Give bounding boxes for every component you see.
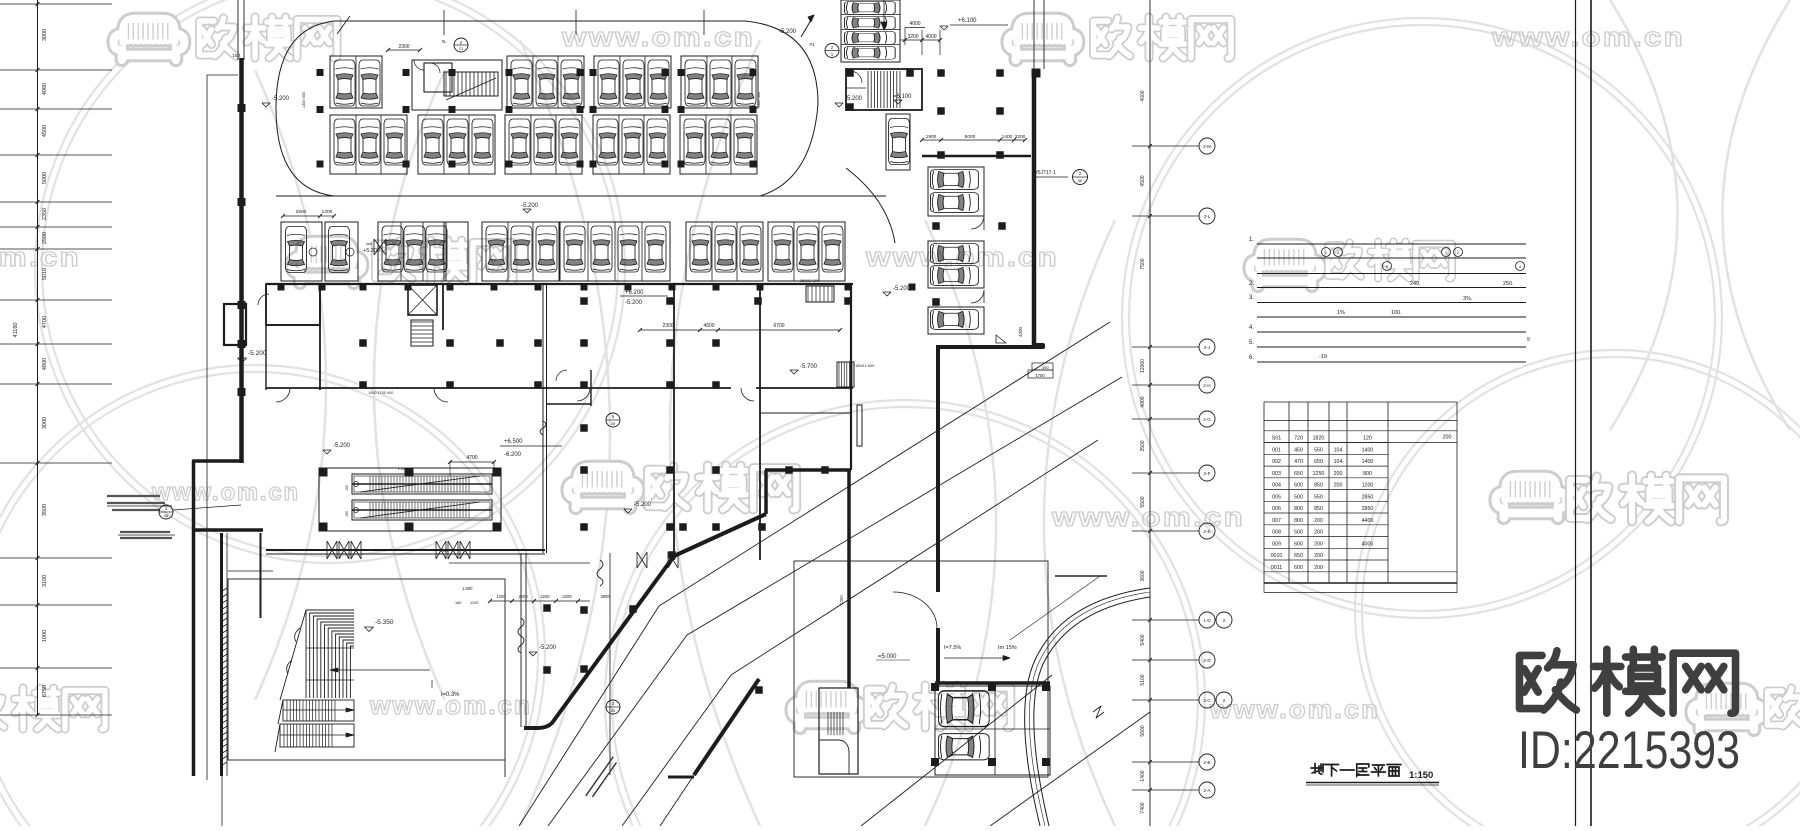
- svg-text:2300: 2300: [662, 323, 673, 329]
- watermark row1 sofa+logo b: [1008, 19, 1079, 60]
- svg-text:2500: 2500: [42, 232, 48, 244]
- svg-text:Im 15%: Im 15%: [998, 645, 1017, 651]
- svg-text:3100: 3100: [42, 575, 48, 587]
- svg-text:180X1.500: 180X1.500: [855, 363, 875, 368]
- svg-text:5010: 5010: [42, 268, 48, 280]
- svg-text:800: 800: [1294, 506, 1303, 512]
- svg-text:1400 1700 400: 1400 1700 400: [368, 391, 393, 395]
- escalator unit 1: [352, 474, 492, 494]
- big watermark logo: [1519, 651, 1576, 710]
- row1 dim 2300: [388, 49, 420, 51]
- property line left: [206, 75, 208, 780]
- svg-text:www.om.cn: www.om.cn: [1209, 694, 1380, 724]
- svg-text:5400: 5400: [1140, 634, 1146, 645]
- svg-text:200: 200: [1443, 435, 1452, 441]
- parking loop columns: [317, 69, 324, 76]
- lobby dims top: [449, 562, 590, 564]
- svg-text:3200: 3200: [1015, 134, 1026, 140]
- svg-text:25: 25: [611, 708, 616, 713]
- row1 stair block: [412, 60, 502, 110]
- notes inline circles: [1322, 248, 1331, 257]
- right wing columns: [932, 222, 940, 230]
- mall stair small top: [806, 286, 834, 302]
- svg-text:3600: 3600: [1140, 570, 1146, 581]
- svg-text:46: 46: [1078, 178, 1083, 183]
- svg-text:S01: S01: [1272, 436, 1281, 442]
- svg-text:www.om.cn: www.om.cn: [1491, 22, 1685, 52]
- svg-text:0010: 0010: [1271, 553, 1283, 559]
- svg-text:470: 470: [1294, 459, 1303, 465]
- row3 group4: [560, 222, 670, 281]
- mall door arcs bottom: [276, 388, 290, 402]
- bottom right stalls: [935, 686, 1050, 775]
- left grid line vertical: [37, 0, 39, 715]
- svg-text:100.: 100.: [1391, 310, 1402, 316]
- mall room walls left: [266, 284, 320, 325]
- construction rect: [794, 561, 1048, 777]
- svg-text:1400: 1400: [1002, 134, 1013, 140]
- svg-text:2200: 2200: [562, 594, 572, 599]
- watermark row4 sofa+logo b: [1692, 689, 1763, 730]
- left wall jog thick: [194, 461, 244, 776]
- svg-text:2-C: 2-C: [1203, 698, 1211, 703]
- stair right mid: [837, 362, 854, 387]
- mall wall bottom right: [765, 468, 851, 472]
- svg-text:2350: 2350: [42, 208, 48, 220]
- svg-text:www.om.cn: www.om.cn: [151, 479, 300, 506]
- svg-text:4000: 4000: [909, 21, 920, 27]
- svg-text:200: 200: [1334, 483, 1343, 489]
- grand stair flight2: [283, 700, 354, 721]
- svg-text:2-L: 2-L: [1204, 214, 1211, 219]
- mall columns: [359, 339, 367, 347]
- svg-text:-5.700: -5.700: [800, 364, 818, 370]
- svg-text:120: 120: [1363, 436, 1372, 442]
- ramp circle left: [454, 38, 468, 52]
- svg-text:1700: 1700: [1035, 373, 1045, 378]
- svg-text:3500: 3500: [1140, 440, 1146, 451]
- svg-text:3000: 3000: [42, 29, 48, 41]
- svg-text:002: 002: [1272, 459, 1281, 465]
- left annotation text: [107, 495, 160, 497]
- svg-text:21: 21: [459, 46, 464, 51]
- svg-text:005: 005: [1272, 494, 1281, 500]
- svg-text:850: 850: [1314, 506, 1323, 512]
- car stack stalls: [841, 0, 900, 62]
- left boundary wall top thin: [237, 0, 239, 60]
- svg-text:2-D: 2-D: [1203, 658, 1211, 663]
- road thin lines lower right: [861, 675, 1052, 826]
- svg-text:2300: 2300: [398, 44, 409, 50]
- svg-text:1200: 1200: [322, 209, 333, 215]
- svg-text:-5.200: -5.200: [539, 645, 557, 651]
- road thin line lower cont: [660, 775, 694, 826]
- svg-text:2.: 2.: [1249, 281, 1254, 287]
- right wing stall2: [928, 241, 984, 288]
- svg-text:4500: 4500: [703, 323, 714, 329]
- svg-text:#L: #L: [442, 39, 447, 44]
- watermark row2 sofa+logo b: [1250, 245, 1321, 286]
- svg-text:=5.000: =5.000: [878, 654, 897, 660]
- lower-left gray wall: [260, 533, 262, 618]
- mall dims: [640, 329, 840, 331]
- leader circle mid2: [606, 700, 620, 714]
- svg-text:6750: 6750: [42, 685, 48, 697]
- grand stair break edge: [275, 610, 306, 752]
- svg-text:5600: 5600: [1140, 725, 1146, 736]
- svg-text:-5.200: -5.200: [248, 350, 267, 357]
- svg-text:7400: 7400: [1140, 802, 1146, 813]
- svg-text:001: 001: [1272, 447, 1281, 453]
- svg-text:1300 500: 1300 500: [302, 92, 306, 108]
- svg-text:150: 150: [345, 485, 349, 491]
- lobby revolving doors: [327, 541, 337, 559]
- svg-text:-5.200: -5.200: [779, 29, 797, 35]
- watermark row4 logo partial: [0, 689, 4, 727]
- svg-text:3800: 3800: [600, 594, 610, 599]
- svg-text:1300 500: 1300 500: [757, 92, 761, 108]
- row3 group5: [686, 222, 763, 281]
- main left wall thick: [239, 58, 244, 463]
- left grid horizontal lines: [0, 3, 112, 5]
- svg-text:650: 650: [1314, 459, 1323, 465]
- svg-text:5500: 5500: [1140, 496, 1146, 507]
- svg-text:1200: 1200: [839, 595, 844, 605]
- svg-text:6.: 6.: [1249, 355, 1254, 361]
- svg-text:1-D: 1-D: [1203, 618, 1211, 623]
- svg-text:4060: 4060: [42, 83, 48, 95]
- stairwell top right: [846, 69, 922, 110]
- small stair mid: [411, 320, 433, 346]
- stair room bottom: [819, 688, 858, 774]
- notes numbered lines: [1257, 243, 1526, 245]
- svg-text:0011: 0011: [1271, 565, 1282, 571]
- svg-text:1900: 1900: [926, 134, 937, 140]
- svg-text:+6.100: +6.100: [958, 18, 977, 24]
- svg-text:4700: 4700: [466, 455, 477, 461]
- lobby door pair right: [637, 552, 647, 568]
- door window schedule table: [1264, 402, 1457, 583]
- svg-text:4000: 4000: [925, 34, 936, 40]
- parking row1 group4: [681, 56, 758, 108]
- svg-text:250X2 300: 250X2 300: [800, 278, 820, 283]
- wall A vertical: [847, 470, 851, 688]
- svg-text:-5.350: -5.350: [375, 619, 394, 626]
- stair mid landing lines: [306, 648, 354, 680]
- loop center ticks: [443, 10, 445, 35]
- svg-text:600: 600: [1294, 541, 1303, 547]
- svg-text:2-J: 2-J: [1204, 345, 1210, 350]
- svg-text:5100: 5100: [1140, 674, 1146, 685]
- svg-text:25: 25: [611, 421, 616, 426]
- svg-text:2-G: 2-G: [1203, 417, 1211, 422]
- lobby top wall: [266, 549, 545, 551]
- left lower wall thick: [195, 528, 263, 532]
- svg-text:6700: 6700: [773, 323, 784, 329]
- svg-text:800: 800: [1294, 518, 1303, 524]
- svg-text:-5.200: -5.200: [272, 96, 290, 102]
- svg-text:ID:2215393: ID:2215393: [1518, 721, 1740, 780]
- svg-text:2850: 2850: [1362, 506, 1374, 512]
- curve into right wing: [846, 168, 895, 243]
- curved road bottom right: [1025, 588, 1150, 826]
- svg-text:#5J?17-1: #5J?17-1: [1035, 170, 1056, 176]
- svg-text:3.: 3.: [1249, 295, 1254, 301]
- svg-text:1250: 1250: [1313, 471, 1325, 477]
- drive loop boundary: [334, 20, 745, 22]
- ramp circle symbol: [825, 44, 839, 58]
- watermark row3 sofa+logo b: [1496, 477, 1567, 518]
- row3 group6: [768, 222, 845, 281]
- svg-text:600: 600: [1294, 565, 1303, 571]
- wing wall lower with door: [893, 592, 937, 628]
- svg-text:500: 500: [1294, 494, 1303, 500]
- parking row2 groups: [330, 115, 407, 174]
- svg-text:+6.200: +6.200: [625, 290, 644, 296]
- svg-text:2200: 2200: [518, 594, 528, 599]
- svg-text:www.om.cn: www.om.cn: [0, 242, 81, 272]
- lobby right wall double: [520, 553, 522, 727]
- svg-text:5.: 5.: [1249, 340, 1254, 346]
- svg-text:www.om.cn: www.om.cn: [561, 22, 755, 52]
- break squiggles: [518, 618, 524, 653]
- svg-text:-5.200: -5.200: [333, 443, 351, 449]
- svg-text:720: 720: [1294, 436, 1303, 442]
- left wall columns: [238, 104, 246, 112]
- parking row1 group1: [330, 56, 382, 108]
- svg-text:I=7.5%: I=7.5%: [944, 645, 961, 651]
- svg-text:006: 006: [1272, 506, 1281, 512]
- svg-text:+6.500: +6.500: [504, 439, 523, 445]
- svg-text:1400: 1400: [1362, 447, 1374, 453]
- svg-text:008: 008: [1272, 530, 1281, 536]
- svg-text:200: 200: [1334, 471, 1343, 477]
- escalator unit 2: [352, 500, 492, 520]
- svg-text:1200: 1200: [496, 594, 506, 599]
- svg-text:41160: 41160: [13, 323, 19, 338]
- bottom area left boundary: [609, 553, 611, 775]
- svg-text:www.om.cn: www.om.cn: [1051, 502, 1245, 532]
- lobby boundary: [228, 579, 505, 760]
- wing bottom wall thick: [936, 345, 1043, 347]
- svg-text:9: 9: [1527, 337, 1530, 343]
- svg-text:12000: 12000: [1140, 359, 1146, 373]
- svg-text:-5.200: -5.200: [521, 203, 539, 209]
- svg-text:450: 450: [1294, 447, 1303, 453]
- row3 door bowties: [374, 239, 386, 255]
- svg-text:2-E: 2-E: [1203, 529, 1210, 534]
- svg-text:1400: 1400: [1140, 770, 1146, 781]
- svg-text:104: 104: [1334, 447, 1343, 453]
- svg-text:003: 003: [1272, 471, 1281, 477]
- ramp arrow: [801, 15, 814, 37]
- right grid vertical: [1149, 0, 1151, 826]
- svg-text:800: 800: [1363, 471, 1372, 477]
- escalator dims: [450, 461, 494, 463]
- right main wall thick: [1033, 0, 1035, 69]
- svg-text:1.500: 1.500: [462, 586, 473, 591]
- retaining wall hatch strip: [221, 588, 227, 766]
- svg-text:1400: 1400: [1362, 459, 1374, 465]
- svg-text:009: 009: [1272, 541, 1281, 547]
- row3 empty stall: [444, 222, 468, 281]
- svg-text:-5.200: -5.200: [845, 96, 863, 102]
- svg-text:200: 200: [1314, 518, 1323, 524]
- svg-text:3%.: 3%.: [1463, 296, 1473, 302]
- road thick edge lower: [694, 679, 759, 775]
- svg-text:200: 200: [1314, 553, 1323, 559]
- row1 stair treads: [446, 72, 494, 96]
- row3 group3: [482, 222, 559, 281]
- bottom room top right walls: [760, 412, 851, 414]
- svg-text:3200: 3200: [907, 34, 918, 40]
- svg-text:2850: 2850: [1362, 494, 1374, 500]
- svg-text:150: 150: [232, 53, 240, 58]
- road thin line t2: [548, 377, 1122, 826]
- elevator shaft: [408, 285, 437, 315]
- watermark row4 sofa+logo: [792, 687, 863, 728]
- svg-text:1%: 1%: [1337, 310, 1345, 316]
- sheet border: [1575, 0, 1577, 826]
- svg-text:200: 200: [1314, 541, 1323, 547]
- svg-text:200: 200: [1314, 565, 1323, 571]
- svg-text:4.: 4.: [1249, 325, 1254, 331]
- svg-text:650: 650: [1294, 553, 1303, 559]
- road thin line t1: [519, 322, 1110, 826]
- grand stair flight3: [280, 724, 354, 747]
- wing bottom horizontal: [935, 681, 1050, 685]
- svg-text:45: 45: [164, 513, 169, 518]
- svg-text:i=0.3%: i=0.3%: [441, 692, 460, 698]
- right wing top wall: [922, 155, 1031, 158]
- row3 wall: [266, 283, 853, 285]
- left leader circle: [159, 505, 173, 519]
- row3 stalls disabled: [281, 222, 322, 281]
- stall below stairwell: [886, 114, 910, 170]
- road thin line t3: [622, 440, 1098, 826]
- svg-text:1200: 1200: [1362, 483, 1374, 489]
- svg-text:600: 600: [1294, 483, 1303, 489]
- narrow bar: [857, 405, 862, 446]
- left wall shaft box: [224, 304, 246, 345]
- road thick edge upper: [524, 514, 766, 728]
- mall door left: [258, 294, 269, 305]
- svg-text:2200: 2200: [540, 594, 550, 599]
- mall corridor walls: [445, 387, 731, 389]
- road break zigzag: [1093, 706, 1104, 718]
- bottom right columns: [931, 683, 939, 691]
- svg-text:-6.200: -6.200: [504, 452, 522, 458]
- svg-text:1:150: 1:150: [1409, 770, 1433, 781]
- svg-text:4800: 4800: [42, 358, 48, 370]
- parking row1 group2: [507, 56, 584, 108]
- svg-text:F.Left: F.Left: [398, 467, 407, 471]
- svg-text:180: 180: [455, 601, 461, 605]
- svg-text:550: 550: [1314, 447, 1323, 453]
- right grid pair bubbles: [1216, 612, 1232, 628]
- parking row1 group3: [594, 56, 671, 108]
- svg-text:#1: #1: [809, 42, 815, 47]
- svg-text:007: 007: [1272, 518, 1281, 524]
- watermark row1 sofa+logo: [114, 19, 185, 60]
- svg-text:250.: 250.: [1503, 281, 1514, 287]
- svg-text:650: 650: [1294, 471, 1303, 477]
- svg-text:=6.100: =6.100: [893, 94, 912, 100]
- title underline: [1306, 782, 1439, 784]
- svg-text:-5.200: -5.200: [634, 502, 652, 508]
- escalator columns: [319, 468, 328, 477]
- svg-text:4500: 4500: [42, 125, 48, 137]
- svg-text:Iwh: Iwh: [366, 241, 372, 246]
- mall wall vertical right: [850, 284, 852, 470]
- svg-text:350: 350: [1042, 365, 1049, 370]
- svg-text:4700: 4700: [42, 316, 48, 328]
- svg-text:4200: 4200: [1018, 326, 1023, 337]
- row3 dim 2500 1200: [283, 215, 320, 217]
- svg-text:104: 104: [1334, 459, 1343, 465]
- row3 group2: [378, 222, 446, 281]
- row3 columns: [278, 284, 285, 291]
- svg-text:4400: 4400: [1362, 518, 1374, 524]
- svg-text:004: 004: [1272, 483, 1281, 489]
- svg-text:1200: 1200: [470, 601, 478, 605]
- svg-text:200: 200: [1314, 530, 1323, 536]
- svg-text:-19: -19: [1319, 354, 1327, 360]
- svg-text:5000: 5000: [42, 172, 48, 184]
- right wing stall1: [928, 167, 984, 216]
- svg-text:4500: 4500: [1140, 175, 1146, 186]
- top dims right: [905, 27, 925, 29]
- small room right of wall: [590, 370, 592, 406]
- svg-text:-5.200: -5.200: [625, 300, 643, 306]
- svg-text:2-H: 2-H: [1203, 383, 1210, 388]
- svg-text:2500: 2500: [296, 209, 307, 215]
- mall east wall double: [542, 284, 544, 553]
- escalator outer: [319, 468, 501, 531]
- svg-text:150: 150: [345, 511, 349, 517]
- svg-text:4000: 4000: [1362, 541, 1374, 547]
- svg-text:1.: 1.: [1249, 237, 1254, 243]
- svg-text:2-B: 2-B: [1203, 760, 1210, 765]
- watermark row3 sofa+logo: [568, 467, 639, 508]
- svg-text:4000: 4000: [1140, 396, 1146, 407]
- svg-text:2-A: 2-A: [1203, 788, 1210, 793]
- svg-text:3000: 3000: [42, 417, 48, 429]
- svg-text:2-M: 2-M: [1203, 144, 1211, 149]
- svg-text:240.: 240.: [1410, 281, 1421, 287]
- svg-text:850: 850: [1314, 483, 1323, 489]
- right hall columns: [846, 69, 854, 77]
- svg-text:500: 500: [1294, 530, 1303, 536]
- svg-text:550: 550: [1314, 494, 1323, 500]
- right wing stall3: [928, 307, 984, 334]
- mall wall vertical mid: [673, 284, 675, 560]
- svg-text:2-F: 2-F: [1204, 471, 1211, 476]
- svg-text:1820: 1820: [1313, 436, 1325, 442]
- grand stair steps: [306, 610, 354, 698]
- leader circle mid: [606, 413, 620, 427]
- svg-text:1000: 1000: [42, 630, 48, 642]
- right grid ticks and bubbles: [1132, 145, 1199, 147]
- svg-text:3500: 3500: [42, 504, 48, 516]
- svg-text:-5.200: -5.200: [893, 286, 911, 292]
- loop corner break tick: [337, 16, 350, 34]
- svg-text:5000: 5000: [965, 134, 976, 140]
- svg-text:7500: 7500: [1140, 258, 1146, 269]
- watermark row2 sofa+logo: [292, 242, 363, 283]
- right wing doors: [971, 216, 984, 229]
- svg-text:4000: 4000: [1140, 90, 1146, 101]
